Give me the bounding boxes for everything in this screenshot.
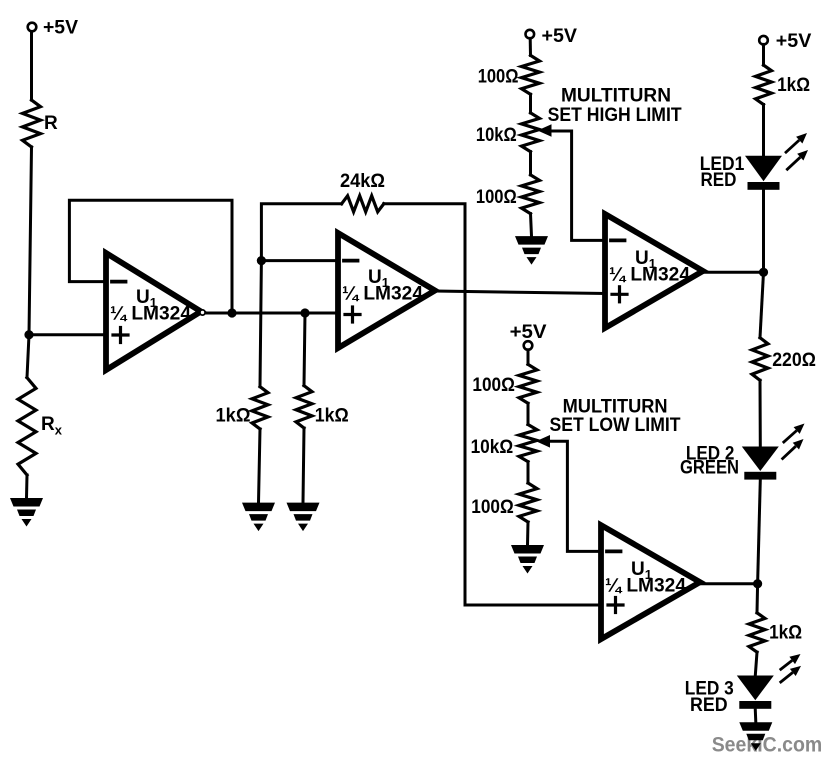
svg-text:¼ LM324: ¼ LM324 xyxy=(342,284,423,305)
svg-text:100Ω: 100Ω xyxy=(476,187,517,208)
svg-text:MULTITURN: MULTITURN xyxy=(561,86,671,107)
svg-text:24kΩ: 24kΩ xyxy=(340,171,385,192)
svg-text:¼ LM324: ¼ LM324 xyxy=(609,265,690,286)
svg-text:1kΩ: 1kΩ xyxy=(315,405,349,426)
svg-text:100Ω: 100Ω xyxy=(478,67,519,88)
svg-text:10kΩ: 10kΩ xyxy=(471,437,514,458)
svg-text:SeekIC.com: SeekIC.com xyxy=(712,733,823,757)
svg-text:SET LOW LIMIT: SET LOW LIMIT xyxy=(550,415,681,436)
svg-text:1kΩ: 1kΩ xyxy=(216,405,251,426)
svg-text:¼ LM324: ¼ LM324 xyxy=(110,304,191,325)
svg-text:¼ LM324: ¼ LM324 xyxy=(605,576,686,597)
svg-text:220Ω: 220Ω xyxy=(772,350,816,371)
svg-text:R: R xyxy=(44,113,58,134)
svg-text:GREEN: GREEN xyxy=(680,458,739,479)
svg-text:+5V: +5V xyxy=(510,322,547,343)
svg-text:10kΩ: 10kΩ xyxy=(476,125,517,146)
svg-text:RED: RED xyxy=(701,170,737,191)
svg-text:100Ω: 100Ω xyxy=(471,497,514,518)
svg-text:1kΩ: 1kΩ xyxy=(769,622,802,643)
svg-text:RED: RED xyxy=(690,695,728,716)
svg-text:+5V: +5V xyxy=(43,18,78,39)
svg-text:1kΩ: 1kΩ xyxy=(777,75,810,96)
svg-text:100Ω: 100Ω xyxy=(472,375,515,396)
svg-text:SET HIGH LIMIT: SET HIGH LIMIT xyxy=(548,105,682,126)
svg-text:+5V: +5V xyxy=(776,31,812,52)
svg-text:+5V: +5V xyxy=(542,26,578,47)
